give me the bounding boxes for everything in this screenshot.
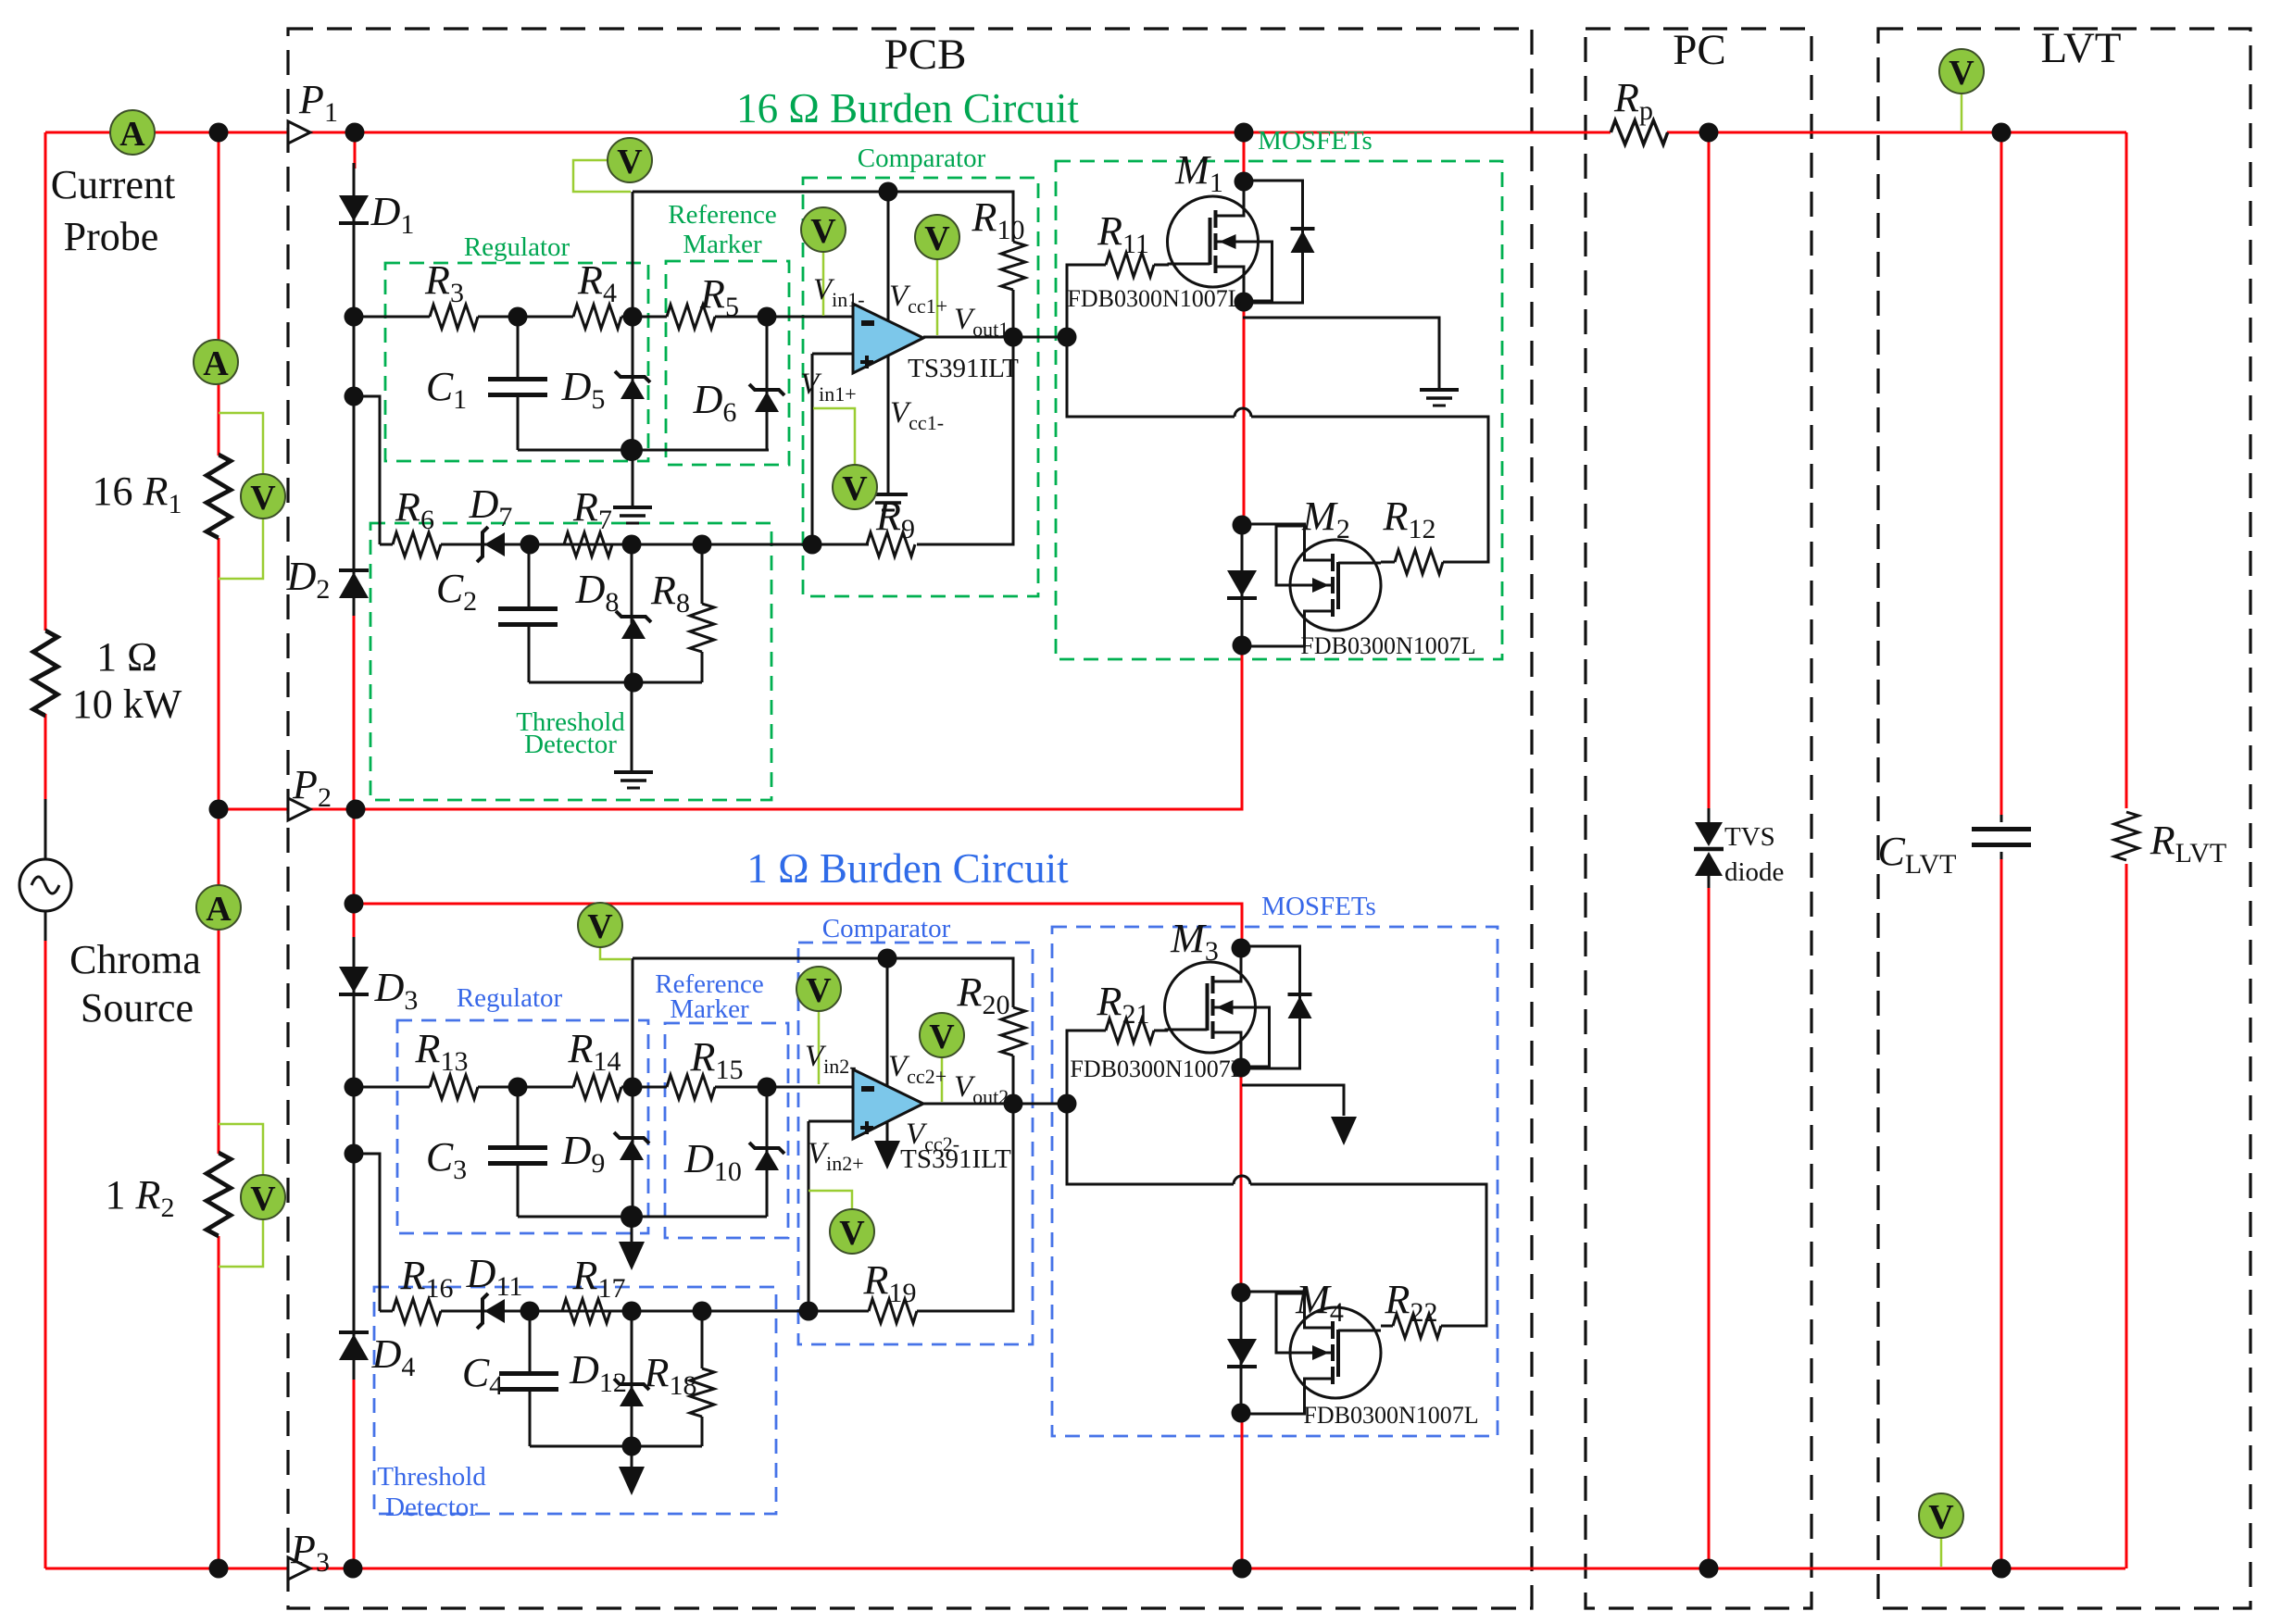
svg-text:CLVT: CLVT <box>1878 829 1957 880</box>
svg-text:Source: Source <box>81 985 194 1031</box>
svg-text:D1: D1 <box>370 189 415 240</box>
svg-text:C1: C1 <box>426 364 467 415</box>
svg-text:R18: R18 <box>644 1350 697 1401</box>
svg-text:R10: R10 <box>972 194 1025 245</box>
svg-text:R4: R4 <box>577 257 617 308</box>
svg-text:R8: R8 <box>650 568 690 618</box>
svg-text:R5: R5 <box>699 271 739 322</box>
svg-text:D6: D6 <box>693 377 737 428</box>
svg-text:D11: D11 <box>466 1251 523 1302</box>
svg-text:16 R1: 16 R1 <box>93 468 182 519</box>
svg-text:FDB0300N1007L: FDB0300N1007L <box>1067 285 1242 312</box>
svg-text:diode: diode <box>1724 857 1784 887</box>
svg-text:LVT: LVT <box>2040 24 2121 72</box>
svg-text:Vcc1+: Vcc1+ <box>889 280 947 318</box>
svg-text:Probe: Probe <box>64 214 159 259</box>
svg-text:Vout2: Vout2 <box>954 1070 1009 1108</box>
svg-text:Vcc2-: Vcc2- <box>906 1118 959 1156</box>
svg-text:Vcc1-: Vcc1- <box>890 396 944 434</box>
svg-text:D9: D9 <box>561 1128 606 1179</box>
svg-text:R14: R14 <box>568 1026 621 1077</box>
svg-text:D2: D2 <box>286 554 331 605</box>
svg-text:P1: P1 <box>298 77 338 128</box>
svg-text:D4: D4 <box>371 1331 416 1382</box>
svg-text:1 Ω: 1 Ω <box>96 634 157 680</box>
svg-text:D10: D10 <box>683 1136 742 1187</box>
svg-text:RLVT: RLVT <box>2150 818 2226 868</box>
svg-text:R11: R11 <box>1097 208 1149 259</box>
svg-text:R21: R21 <box>1097 979 1150 1030</box>
svg-text:Vout1: Vout1 <box>954 303 1009 341</box>
svg-text:P3: P3 <box>290 1527 330 1578</box>
svg-text:R7: R7 <box>572 484 612 535</box>
svg-text:M2: M2 <box>1301 493 1350 544</box>
svg-text:R3: R3 <box>424 257 464 308</box>
svg-text:C4: C4 <box>462 1350 503 1401</box>
svg-text:Reference: Reference <box>668 200 777 230</box>
svg-text:Current: Current <box>51 162 175 207</box>
svg-text:FDB0300N1007L: FDB0300N1007L <box>1300 632 1475 659</box>
svg-text:Rp: Rp <box>1613 75 1653 126</box>
svg-text:16 Ω Burden Circuit: 16 Ω Burden Circuit <box>736 85 1079 131</box>
svg-text:P2: P2 <box>292 762 332 813</box>
svg-text:Comparator: Comparator <box>822 914 951 943</box>
svg-text:Vin1-: Vin1- <box>813 273 865 311</box>
svg-text:Comparator: Comparator <box>858 144 986 173</box>
svg-text:D5: D5 <box>561 364 606 415</box>
svg-text:R20: R20 <box>957 969 1010 1020</box>
svg-text:D12: D12 <box>569 1347 627 1398</box>
svg-text:Detector: Detector <box>385 1493 478 1522</box>
svg-text:R15: R15 <box>690 1034 744 1085</box>
svg-text:M3: M3 <box>1170 916 1219 967</box>
svg-text:Detector: Detector <box>524 730 617 759</box>
svg-text:Marker: Marker <box>683 230 762 259</box>
svg-text:C3: C3 <box>426 1134 467 1185</box>
svg-text:C2: C2 <box>436 566 477 617</box>
svg-text:Chroma: Chroma <box>69 937 201 982</box>
svg-text:D3: D3 <box>374 965 419 1016</box>
svg-text:R19: R19 <box>863 1257 917 1308</box>
svg-text:D7: D7 <box>469 481 513 532</box>
svg-text:M4: M4 <box>1295 1277 1344 1328</box>
svg-text:R12: R12 <box>1383 493 1436 544</box>
svg-text:Threshold: Threshold <box>377 1462 486 1492</box>
svg-text:Regulator: Regulator <box>457 983 563 1013</box>
svg-text:R22: R22 <box>1385 1277 1438 1328</box>
svg-text:FDB0300N1007L: FDB0300N1007L <box>1303 1402 1478 1429</box>
svg-text:M1: M1 <box>1174 147 1223 198</box>
svg-text:R13: R13 <box>415 1026 469 1077</box>
svg-text:PC: PC <box>1673 26 1726 74</box>
svg-text:TS391ILT: TS391ILT <box>908 354 1019 383</box>
svg-text:1 Ω Burden Circuit: 1 Ω Burden Circuit <box>746 845 1069 892</box>
svg-text:R17: R17 <box>572 1253 626 1304</box>
svg-text:R9: R9 <box>875 493 915 544</box>
svg-text:MOSFETs: MOSFETs <box>1261 892 1376 921</box>
svg-text:Vin1+: Vin1+ <box>800 368 857 406</box>
svg-text:MOSFETs: MOSFETs <box>1258 126 1373 156</box>
svg-text:PCB: PCB <box>884 31 967 79</box>
svg-text:1 R2: 1 R2 <box>106 1172 175 1223</box>
svg-text:R16: R16 <box>400 1253 454 1304</box>
svg-text:Vin2-: Vin2- <box>805 1040 857 1078</box>
svg-text:R6: R6 <box>395 484 434 535</box>
svg-text:D8: D8 <box>575 567 620 618</box>
svg-text:Marker: Marker <box>670 994 749 1024</box>
svg-text:TVS: TVS <box>1724 822 1775 852</box>
svg-text:Vin2+: Vin2+ <box>808 1137 864 1175</box>
svg-text:10 kW: 10 kW <box>72 681 182 727</box>
svg-text:FDB0300N1007L: FDB0300N1007L <box>1070 1056 1245 1082</box>
svg-text:Regulator: Regulator <box>464 232 570 262</box>
